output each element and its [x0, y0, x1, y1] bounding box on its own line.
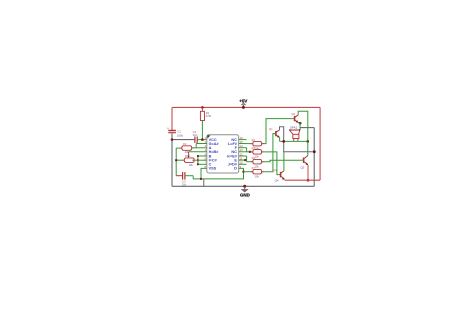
junction B node: [197, 155, 199, 157]
IC U1 right pin numbers: [240, 136, 244, 169]
capacitor C2: [193, 130, 198, 143]
wire pin D bend to R7: [239, 168, 244, 171]
svg-text:Q1: Q1: [269, 127, 273, 131]
wire C3 down: [193, 176, 201, 179]
wire pin H=B# to wiper: [189, 151, 207, 153]
svg-text:R4: R4: [252, 138, 256, 142]
wiper arrow into R3: [188, 152, 190, 157]
resistor R2: [182, 142, 192, 154]
wire R3 left: [176, 159, 184, 161]
wire C2 to VCC pin: [197, 139, 207, 141]
svg-text:10k: 10k: [255, 164, 260, 168]
svg-text:10n: 10n: [193, 133, 198, 137]
wire R7 right to Q1 base: [262, 134, 276, 172]
resistor R7: [252, 166, 262, 178]
wire B-to-C vertical: [197, 156, 199, 164]
junction speaker node right: [307, 140, 310, 143]
wire R7 left lead: [244, 171, 253, 173]
junction R7 left: [242, 171, 244, 173]
wire gnd branch to C2: [172, 139, 195, 141]
svg-text:R2: R2: [183, 142, 187, 146]
wire pin B: [198, 155, 207, 157]
svg-text:10k: 10k: [189, 163, 194, 167]
resistor leads red accents: [180, 144, 264, 172]
IC U1 left pin numbers: [204, 136, 206, 169]
junction node below C1: [171, 138, 174, 141]
wire pin G=A#: [196, 143, 207, 145]
wire +5V right rail: [319, 107, 321, 180]
wire Q3 collector riser: [307, 141, 309, 155]
wire pin E stub: [239, 159, 247, 161]
resistor R6: [252, 156, 262, 168]
svg-text:GND: GND: [240, 193, 250, 198]
wire gnd below C1: [171, 133, 173, 186]
wire gnd bottom rail: [172, 185, 314, 187]
junction on gray riser: [313, 150, 316, 153]
wire speaker node horizontal: [280, 140, 308, 142]
wire Q1 emitter drop: [279, 138, 281, 142]
junction Q2 emitter: [299, 122, 302, 125]
svg-text:+: +: [167, 127, 169, 131]
wire pin K=E# stub: [239, 155, 247, 157]
transistor Q1: [269, 127, 280, 138]
wire pin NC top stub: [239, 139, 247, 141]
wire pin F stub: [239, 147, 247, 149]
wire +5V left drop to C1: [171, 107, 173, 130]
speaker SP1: [289, 126, 300, 142]
junction dot on rail at R1: [201, 106, 204, 109]
wire R4 right to Q2 base: [262, 119, 295, 144]
wire C3 right: [185, 175, 193, 177]
svg-text:100u: 100u: [177, 134, 184, 138]
svg-text:Q2: Q2: [291, 112, 295, 116]
wire F-NC bracket: [246, 148, 248, 152]
wire R2 right vertical: [195, 144, 197, 148]
svg-text:VSS: VSS: [209, 167, 217, 171]
svg-text:R6: R6: [252, 156, 256, 160]
wire bottom red link: [285, 179, 321, 181]
wire Q4 collector riser: [283, 152, 285, 171]
junction VCC node: [201, 138, 204, 141]
ground symbol GND: [240, 185, 250, 198]
transistor Q2: [291, 112, 298, 123]
junction Q3 emitter bottom: [307, 179, 310, 182]
svg-text:Q3: Q3: [301, 166, 305, 170]
wire VSS under-IC run: [201, 168, 244, 179]
wire gnd tie: [203, 179, 205, 186]
svg-text:SPK1: SPK1: [290, 126, 298, 130]
+5V supply symbol: [239, 98, 247, 107]
wire pin J=D# stub: [239, 163, 247, 165]
wire gnd right riser: [313, 128, 315, 187]
resistor R4: [252, 138, 262, 150]
junction left bus: [175, 159, 177, 161]
wire R1 to VCC node: [201, 121, 203, 140]
wire pin A / R2 right: [192, 147, 207, 149]
junction dot on rail at +5V: [242, 106, 245, 109]
wire R3 right: [192, 159, 207, 161]
wire K-E bracket: [246, 156, 248, 162]
svg-text:R5: R5: [252, 146, 256, 150]
resistor R5: [252, 146, 262, 158]
svg-text:10k: 10k: [255, 174, 260, 178]
resistor R3 trimmer: [184, 154, 194, 167]
wire +5V top rail: [172, 106, 320, 108]
junction pin E: [244, 159, 246, 161]
wire pin L=F# to R4: [239, 143, 253, 145]
IC U1 body: [207, 135, 239, 173]
svg-text:47R: 47R: [206, 114, 211, 118]
capacitor C3: [182, 172, 187, 186]
wire Q1 collector arch to gray branch: [280, 127, 315, 152]
IC U1 right pin labels: [227, 138, 237, 171]
wire R5 right to Q4 base: [262, 152, 281, 175]
svg-text:Q4: Q4: [275, 179, 279, 183]
wire pin C: [198, 163, 207, 165]
svg-text:Q4: Q4: [273, 168, 277, 172]
wire Q2 collector route: [298, 111, 308, 141]
wire Q3 emitter red: [307, 165, 309, 180]
wire Q2 emitter to speaker: [299, 123, 301, 130]
junction R3 right node: [197, 159, 199, 161]
wire pin NC2 stub / R5 left: [239, 151, 253, 153]
wire R2 left: [176, 147, 182, 149]
resistor R1: [200, 107, 211, 120]
wire R6 right to Q3 base: [262, 160, 301, 162]
transistor Q3: [301, 156, 309, 170]
wire to C3: [176, 175, 182, 177]
svg-text:10k: 10k: [255, 155, 260, 159]
wire gnd to speaker: [300, 127, 314, 129]
junction C node: [197, 163, 199, 165]
transistor Q4: [273, 168, 285, 183]
wire left bus vertical: [175, 148, 177, 176]
junction VSS drop: [200, 178, 202, 180]
svg-text:R7: R7: [252, 166, 256, 170]
junction speaker node left: [282, 140, 285, 143]
IC U1 left pin labels: [209, 138, 220, 171]
svg-text:D: D: [234, 167, 237, 171]
junction R5 left: [249, 151, 251, 153]
wire R6 left: [247, 161, 253, 163]
capacitor C1 electrolytic: [167, 127, 184, 138]
